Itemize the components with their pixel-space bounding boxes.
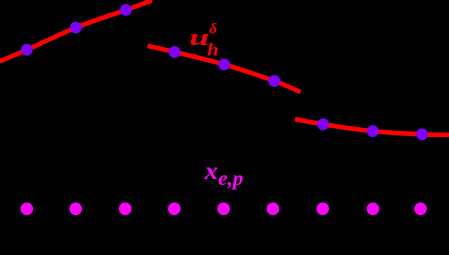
node P7 (purple solution point on curve) — [317, 118, 329, 130]
node P1 (purple solution point on curve) — [21, 44, 33, 56]
node x_e,2 (magenta collocation point) — [69, 203, 82, 216]
label u_h^delta (red math label) — [189, 21, 218, 59]
node x_e,5 (magenta collocation point) — [217, 203, 230, 216]
node P9 (purple solution point on curve) — [416, 128, 428, 140]
node x_e,4 (magenta collocation point) — [168, 203, 181, 216]
node x_e,8 (magenta collocation point) — [367, 203, 380, 216]
svg-text:u: u — [189, 24, 209, 51]
node x_e,9 (magenta collocation point) — [414, 203, 427, 216]
node x_e,6 (magenta collocation point) — [267, 203, 280, 216]
node P2 (purple solution point on curve) — [70, 22, 82, 34]
svg-text:h: h — [207, 39, 218, 59]
node x_e,1 (magenta collocation point) — [21, 203, 34, 216]
red curve segment 1 (piecewise DG solution, left element) — [0, 1, 152, 63]
svg-text:e,p: e,p — [218, 166, 243, 190]
node P5 (purple solution point on curve) — [218, 59, 230, 71]
node P8 (purple solution point on curve) — [367, 125, 379, 137]
svg-text:x: x — [204, 158, 218, 185]
node P4 (purple solution point on curve) — [169, 46, 181, 58]
node P3 (purple solution point on curve) — [120, 4, 132, 16]
svg-text:δ: δ — [209, 21, 217, 37]
node x_e,3 (magenta collocation point) — [119, 203, 132, 216]
node P6 (purple solution point on curve) — [268, 75, 280, 87]
red curve segment 3 (piecewise DG solution, right element) — [295, 119, 449, 135]
red curve segment 2 (piecewise DG solution, middle element) — [148, 46, 301, 92]
label x_e,p (magenta math label) — [204, 158, 244, 190]
node x_e,7 (magenta collocation point) — [316, 203, 329, 216]
